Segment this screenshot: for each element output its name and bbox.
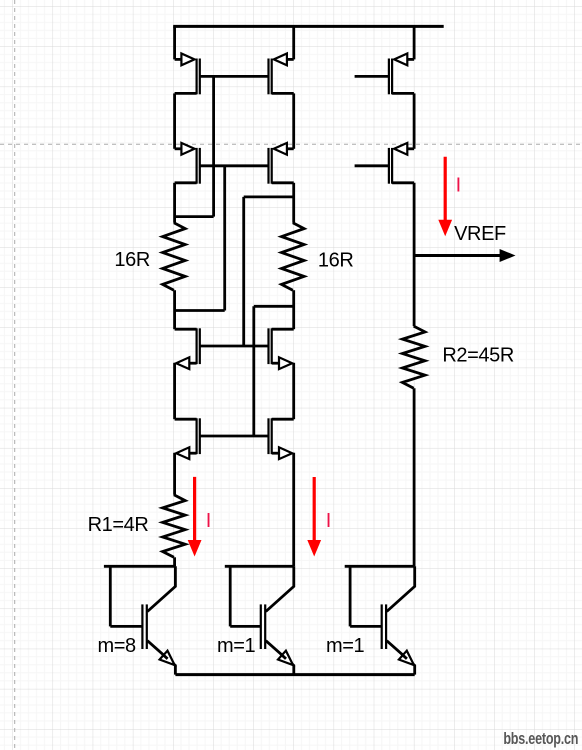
transistor M1 PMOS (left, row1) <box>196 59 198 95</box>
svg-text:R1=4R: R1=4R <box>88 514 149 536</box>
wire R1 bottom to Q1 collector <box>173 557 176 566</box>
wire M9 drain to M10 source <box>413 93 416 148</box>
svg-text:16R: 16R <box>318 249 354 271</box>
wire gate bus row4 <box>200 435 268 438</box>
transistor M5 NMOS (left, row3) <box>196 328 198 364</box>
transistor Q2 NPN m=1 <box>225 565 294 568</box>
transistor M2 PMOS (right, row1) <box>271 59 273 95</box>
current arrow I (output branch) <box>444 157 447 222</box>
svg-text:VREF: VREF <box>454 223 506 245</box>
wire M8 source to Q2 collector <box>292 453 295 567</box>
wire M10 drain to VREF node <box>413 183 416 256</box>
resistor 16R left <box>163 223 186 290</box>
wire gate bus row3 <box>200 345 268 348</box>
svg-text:I: I <box>456 174 461 196</box>
svg-text:m=8: m=8 <box>98 635 137 657</box>
wire M4 drain to 16R right <box>292 183 295 223</box>
node drain tap to NMOS gate bus1 <box>244 195 294 198</box>
wire 16R right bottom to N2 drain <box>292 290 295 329</box>
node gate2 tap: horizontal link <box>175 309 225 312</box>
transistor M9 PMOS (output, row1) <box>391 59 393 95</box>
transistor M8 NMOS (right, row4) <box>271 418 273 454</box>
wire gate stub M10 <box>355 164 389 167</box>
node gate1 tap: horizontal link <box>175 215 214 218</box>
wire M1 drain to M3 source <box>173 93 176 148</box>
wire 16R left bottom to N1 drain <box>173 290 176 329</box>
transistor M4 PMOS (right, row2) <box>271 148 273 184</box>
svg-text:I: I <box>206 510 211 532</box>
wire right column: rail to M9 source <box>413 26 416 59</box>
wire top rail VDD <box>173 25 444 28</box>
wire M2 drain to M4 source <box>292 93 295 148</box>
transistor M6 NMOS (right, row3) <box>271 328 273 364</box>
wire M3 drain to resistor 16R left <box>173 183 176 223</box>
resistor R2=45R <box>402 326 425 388</box>
wire left column: rail to M1 source <box>173 26 176 59</box>
wire middle column: rail to M2 source <box>292 26 295 59</box>
svg-text:16R: 16R <box>114 249 149 271</box>
wire M6 source to M8 drain <box>292 363 295 419</box>
transistor Q1 NPN m=8 <box>104 565 175 568</box>
node tap to NMOS gate bus2 <box>254 305 294 308</box>
wire riser gate bus2 <box>223 166 226 311</box>
wire R2 bottom to Q3 collector <box>413 388 416 566</box>
wire gate bus row2 <box>200 164 268 167</box>
wire M5 source to M7 drain <box>173 363 176 419</box>
wire bottom rail (emitters) <box>175 673 414 676</box>
current arrow I (middle branch) <box>313 477 316 543</box>
svg-text:I: I <box>326 510 331 532</box>
wire riser to NMOS gate bus2 <box>252 306 255 436</box>
wire gate bus row1 <box>200 75 268 78</box>
wire riser gate bus1 <box>212 76 215 216</box>
resistor R1=4R <box>163 495 186 558</box>
transistor M7 NMOS (left, row4) <box>196 418 198 454</box>
svg-text:m=1: m=1 <box>217 635 256 657</box>
svg-text:m=1: m=1 <box>326 635 365 657</box>
wire VREF node to R2 <box>413 256 416 327</box>
wire riser to NMOS gate bus1 <box>242 197 245 346</box>
transistor Q3 NPN m=1 <box>345 565 415 568</box>
wire gate stub M9 <box>355 75 389 78</box>
transistor M10 PMOS (output, row2) <box>391 148 393 184</box>
resistor 16R right <box>282 223 305 290</box>
node VREF output arrow <box>414 254 501 257</box>
transistor M3 PMOS (left, row2) <box>196 148 198 184</box>
current arrow I (left branch) <box>193 477 196 543</box>
svg-text:R2=45R: R2=45R <box>442 345 514 367</box>
wire M7 source to resistor R1 <box>173 453 176 495</box>
